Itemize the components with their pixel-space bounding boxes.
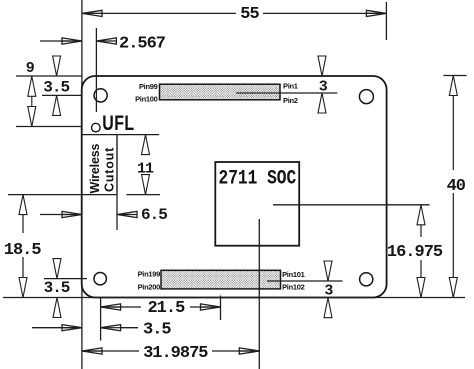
svg-text:Pin101: Pin101: [282, 270, 305, 279]
svg-text:Pin1: Pin1: [283, 82, 298, 91]
svg-text:Pin200: Pin200: [138, 283, 161, 292]
dim 31.9875 line: [82, 350, 139, 352]
svg-text:3.5: 3.5: [143, 321, 171, 340]
wireless cutout box right edge: [116, 135, 118, 195]
ext line: board left edge extended full height: [81, 0, 83, 369]
dim 55 line: [82, 12, 236, 14]
ext line: board right edge extended up (55 dim): [385, 2, 387, 40]
2711 SOC box: [215, 162, 299, 246]
dim 11 arrows: [145, 135, 147, 155]
ext line: bottom hole center x down: [100, 298, 102, 341]
dim 21.5 line: [101, 306, 141, 308]
svg-text:40: 40: [447, 177, 466, 196]
bottom header strip (pins 199/200 .. 101/102): [161, 270, 281, 289]
svg-text:Wireless: Wireless: [88, 144, 102, 194]
svg-text:UFL: UFL: [102, 111, 134, 135]
ext line: board bottom edge extended both sides: [3, 297, 465, 299]
dim 55 right arrow: [366, 12, 386, 14]
dim 18.5 upper arrow: [22, 195, 24, 233]
dim 9 arrows: [31, 76, 33, 126]
dim 2.567 left arrow: [40, 40, 82, 42]
svg-text:Pin199: Pin199: [138, 270, 161, 279]
wireless cutout box bottom edge (ext left for 18.5): [8, 194, 117, 196]
top header strip (pins 99/100 .. 1/2): [160, 84, 281, 100]
dim 55 left arrow: [82, 12, 102, 14]
dim 3.5 bottom-h left arrow: [32, 327, 82, 329]
dim 40 upper arrow: [452, 76, 454, 171]
ext line: UFL x (2.567 dim): [95, 28, 97, 112]
svg-text:Pin99: Pin99: [139, 82, 158, 91]
dim 6.5 left arrow: [40, 214, 82, 216]
svg-text:31.9875: 31.9875: [143, 344, 208, 363]
svg-text:21.5: 21.5: [147, 299, 185, 318]
ext line: SOC center x down (31.9875 dim): [258, 219, 260, 369]
dim 40 lower arrow: [452, 193, 454, 298]
ref line: top hole center y (3.5 dim): [42, 94, 82, 96]
dim 18.5 lower arrow: [22, 257, 24, 298]
svg-text:3: 3: [319, 79, 328, 96]
ref line: Pin1/Pin2 row (3 dim): [236, 92, 337, 94]
ext line: board top edge extended left: [16, 75, 82, 77]
ext line: 11 dim bottom: [127, 194, 161, 196]
ref line: bottom hole center y (3.5 dim): [44, 278, 87, 280]
dim 3.5 bottom-left arrows: [53, 259, 61, 279]
dim 16.975 lower arrow: [420, 260, 422, 298]
dim 21.5 left arrow: [101, 306, 121, 308]
dim 3.5 top arrows: [53, 56, 61, 76]
svg-text:3: 3: [324, 282, 333, 299]
dim 3.5 bottom-h right arrow: [101, 327, 121, 329]
svg-text:Pin100: Pin100: [135, 95, 158, 104]
svg-text:3.5: 3.5: [43, 78, 69, 96]
dim 3 bottom arrows: [324, 261, 332, 281]
svg-text:Pin2: Pin2: [283, 96, 298, 105]
svg-text:3.5: 3.5: [44, 279, 70, 297]
dim 6.5 right arrow: [117, 214, 137, 216]
ext line: 21.5 dim right: [220, 296, 222, 321]
board outline 55x40 rounded rect: [82, 76, 387, 298]
svg-text:2.567: 2.567: [119, 35, 166, 54]
svg-text:9: 9: [26, 60, 35, 77]
mounting hole top-right: [359, 90, 373, 104]
dim 31.9875 right arrow: [239, 350, 259, 352]
svg-text:55: 55: [240, 5, 259, 24]
UFL connector circle: [92, 123, 101, 132]
mounting hole top-left: [94, 89, 107, 102]
mounting hole bottom-right: [360, 273, 373, 286]
ref line: Pin101/Pin102 row (3 dim): [267, 280, 343, 282]
svg-text:11: 11: [137, 160, 154, 177]
ext tick: board top for 40 dim: [444, 75, 467, 77]
ext line: cutout right edge down (6.5 dim): [116, 195, 118, 230]
dim 21.5 right arrow: [201, 306, 221, 308]
svg-text:6.5: 6.5: [141, 206, 167, 224]
wireless cutout box top edge (ext to 11 dim): [82, 134, 160, 136]
svg-text:Cutout: Cutout: [103, 147, 117, 192]
leader line: SOC y to 16.975 dim: [273, 204, 430, 206]
svg-text:2711 SOC: 2711 SOC: [219, 167, 297, 190]
dim 16.975 upper arrow: [420, 205, 422, 237]
dim 2.567 right arrow: [96, 40, 116, 42]
mounting hole bottom-left: [94, 273, 106, 285]
svg-text:Pin102: Pin102: [282, 282, 305, 291]
svg-text:16.975: 16.975: [387, 243, 443, 262]
dim 31.9875 left arrow: [82, 350, 102, 352]
dim 3 top arrows: [318, 56, 326, 76]
ref line: UFL center y (9 dim): [16, 126, 82, 128]
